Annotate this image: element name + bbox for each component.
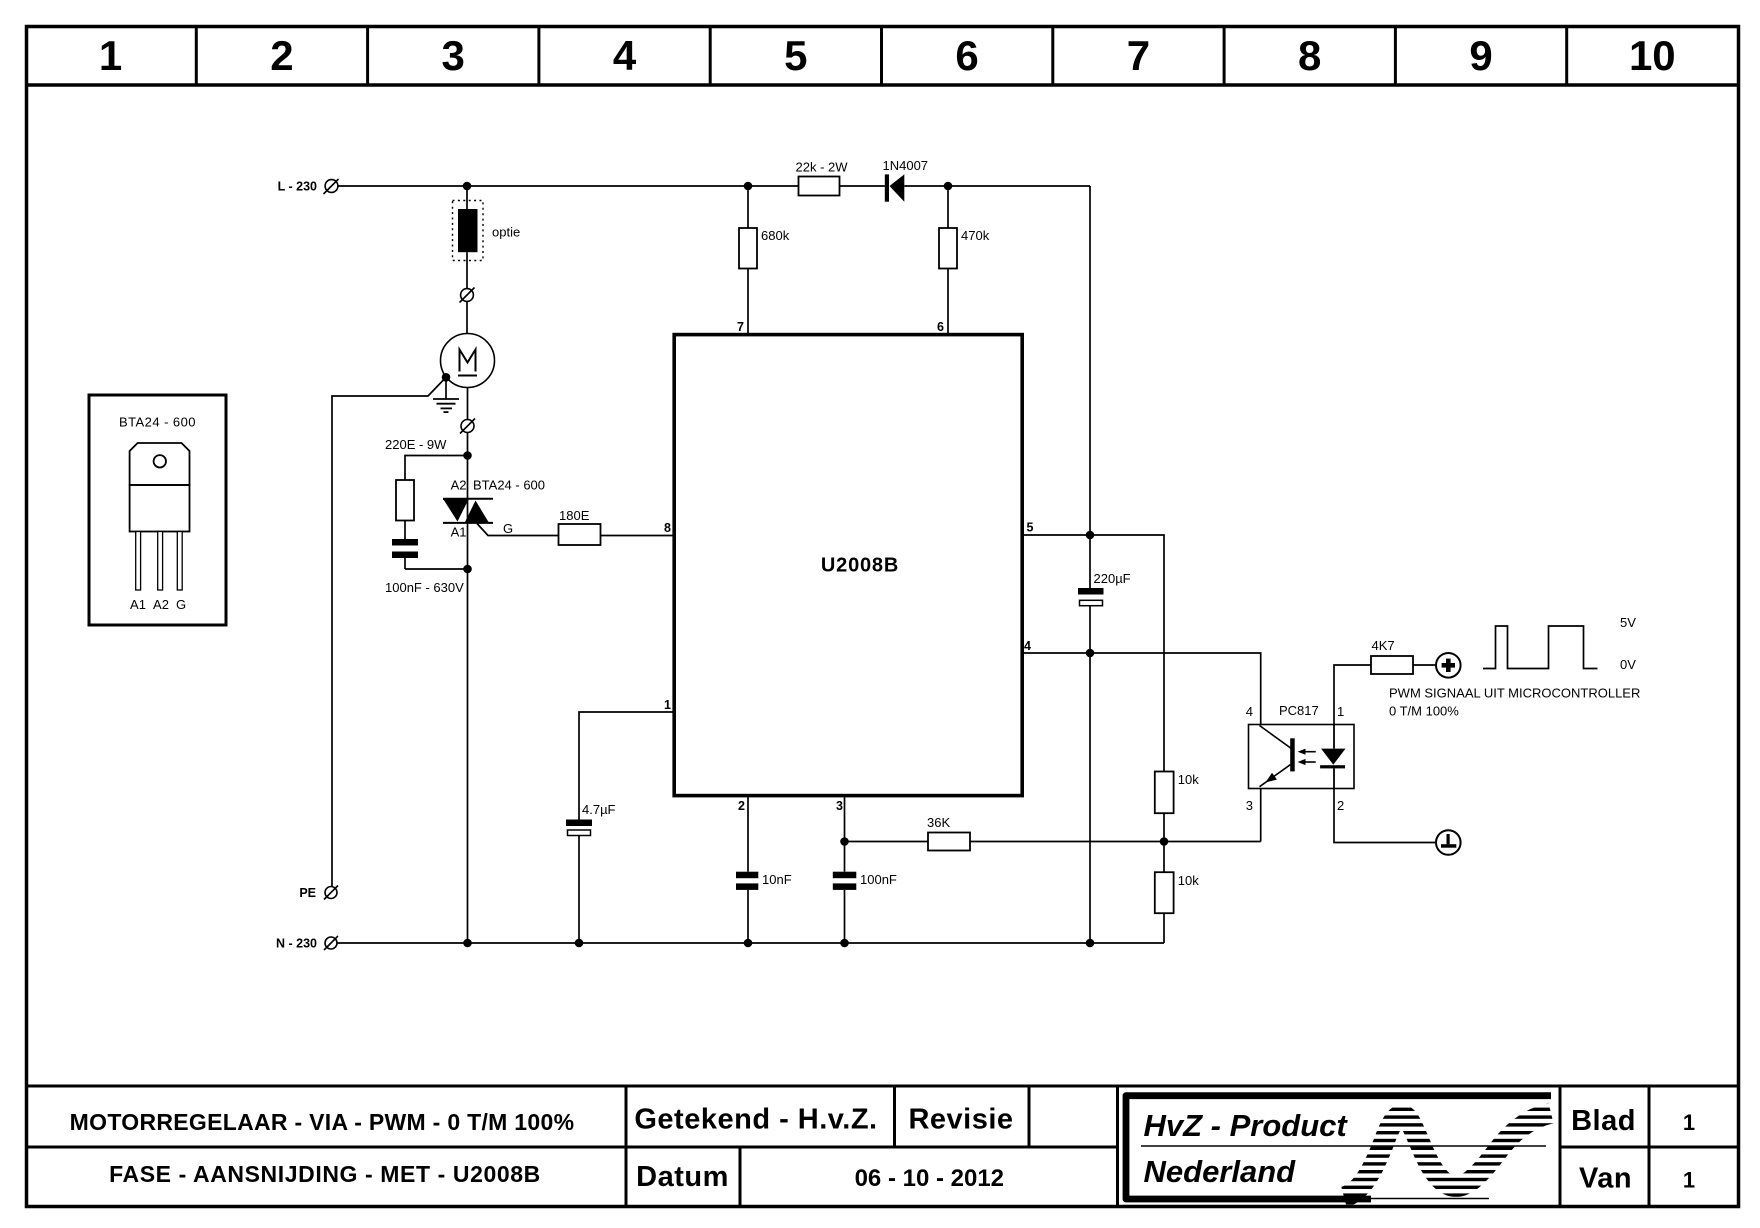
- svg-text:100nF: 100nF: [860, 872, 897, 887]
- svg-text:470k: 470k: [961, 228, 990, 243]
- svg-text:A2: A2: [451, 478, 467, 493]
- svg-text:3: 3: [1246, 798, 1253, 813]
- svg-text:0V: 0V: [1620, 657, 1636, 672]
- svg-text:PC817: PC817: [1279, 703, 1319, 718]
- svg-text:Blad: Blad: [1571, 1105, 1636, 1137]
- svg-text:2: 2: [738, 799, 745, 813]
- svg-text:4: 4: [1024, 639, 1031, 653]
- svg-text:10k: 10k: [1178, 772, 1199, 787]
- svg-text:A1: A1: [130, 597, 146, 612]
- svg-text:HvZ - Product: HvZ - Product: [1144, 1108, 1349, 1143]
- svg-text:10: 10: [1629, 32, 1676, 79]
- svg-text:N - 230: N - 230: [276, 937, 317, 951]
- svg-text:BTA24 - 600: BTA24 - 600: [119, 415, 196, 430]
- svg-text:6: 6: [937, 320, 944, 334]
- svg-text:4.7µF: 4.7µF: [582, 802, 616, 817]
- svg-text:Nederland: Nederland: [1144, 1154, 1297, 1189]
- svg-text:2: 2: [1337, 798, 1344, 813]
- svg-text:9: 9: [1469, 32, 1492, 79]
- svg-text:0 T/M 100%: 0 T/M 100%: [1389, 704, 1459, 719]
- svg-text:8: 8: [1298, 32, 1321, 79]
- svg-text:06 - 10 - 2012: 06 - 10 - 2012: [855, 1165, 1004, 1192]
- svg-text:100nF - 630V: 100nF - 630V: [385, 580, 464, 595]
- svg-text:BTA24 - 600: BTA24 - 600: [473, 478, 545, 493]
- svg-text:36K: 36K: [927, 815, 950, 830]
- svg-text:A2: A2: [153, 597, 169, 612]
- svg-text:680k: 680k: [761, 228, 790, 243]
- svg-text:6: 6: [955, 32, 978, 79]
- svg-text:Datum: Datum: [636, 1161, 729, 1193]
- svg-text:4K7: 4K7: [1372, 638, 1395, 653]
- svg-text:5: 5: [784, 32, 807, 79]
- svg-text:1: 1: [1683, 1110, 1695, 1135]
- svg-text:1: 1: [99, 32, 122, 79]
- svg-text:optie: optie: [492, 225, 520, 240]
- svg-text:7: 7: [1127, 32, 1150, 79]
- svg-text:2: 2: [270, 32, 293, 79]
- svg-text:180E: 180E: [559, 508, 590, 523]
- svg-text:FASE - AANSNIJDING - MET - U20: FASE - AANSNIJDING - MET - U2008B: [109, 1161, 541, 1187]
- svg-text:220E - 9W: 220E - 9W: [385, 437, 447, 452]
- svg-text:8: 8: [664, 521, 671, 535]
- svg-text:G: G: [176, 597, 186, 612]
- svg-text:3: 3: [442, 32, 465, 79]
- svg-text:G: G: [503, 521, 513, 536]
- svg-text:PE: PE: [299, 886, 316, 900]
- svg-text:Van: Van: [1579, 1163, 1632, 1195]
- svg-text:U2008B: U2008B: [821, 555, 899, 577]
- svg-text:220µF: 220µF: [1094, 571, 1131, 586]
- svg-text:Revisie: Revisie: [908, 1104, 1013, 1136]
- svg-text:7: 7: [737, 320, 744, 334]
- svg-text:4: 4: [1246, 704, 1253, 719]
- svg-text:Getekend - H.v.Z.: Getekend - H.v.Z.: [634, 1104, 877, 1136]
- svg-text:3: 3: [836, 799, 843, 813]
- svg-text:MOTORREGELAAR - VIA - PWM - 0: MOTORREGELAAR - VIA - PWM - 0 T/M 100%: [70, 1109, 575, 1135]
- svg-text:10k: 10k: [1178, 873, 1199, 888]
- svg-text:5: 5: [1027, 521, 1034, 535]
- svg-text:4: 4: [613, 32, 637, 79]
- svg-text:10nF: 10nF: [762, 872, 792, 887]
- svg-text:L - 230: L - 230: [278, 180, 317, 194]
- svg-text:5V: 5V: [1620, 615, 1636, 630]
- svg-text:1N4007: 1N4007: [883, 158, 929, 173]
- svg-text:A1: A1: [451, 525, 467, 540]
- svg-text:1: 1: [1683, 1168, 1695, 1193]
- svg-text:1: 1: [1337, 704, 1344, 719]
- svg-text:22k - 2W: 22k - 2W: [796, 160, 849, 175]
- svg-text:PWM SIGNAAL UIT MICROCONTROLLE: PWM SIGNAAL UIT MICROCONTROLLER: [1389, 686, 1640, 701]
- svg-text:1: 1: [664, 698, 671, 712]
